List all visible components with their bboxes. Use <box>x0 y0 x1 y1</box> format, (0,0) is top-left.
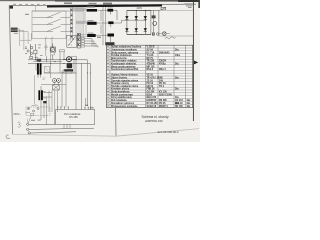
wire mid bus 1 <box>28 59 87 61</box>
relay frame box <box>44 67 49 73</box>
svg-text:H06PP40-150: H06PP40-150 <box>145 119 163 123</box>
breaker pole L1 <box>33 12 71 17</box>
supply terminal box X0 <box>11 28 18 32</box>
svg-text:220V: 220V <box>137 7 143 10</box>
svg-text:230V~: 230V~ <box>14 113 22 116</box>
svg-text:B250: B250 <box>147 94 153 96</box>
border frame left <box>9 5 12 134</box>
svg-text:Transformator ovladaci: Transformator ovladaci <box>111 60 137 63</box>
svg-text:RV 06-150: RV 06-150 <box>147 103 159 105</box>
svg-text:ZS 24: ZS 24 <box>147 79 154 82</box>
svg-text:RSA 4: RSA 4 <box>147 68 154 71</box>
wire rail 3 <box>30 132 76 133</box>
table column lines <box>110 45 186 107</box>
svg-text:Ziarovka signalna zelena: Ziarovka signalna zelena <box>111 80 139 82</box>
svg-text:Pult ovladania: Pult ovladania <box>111 99 127 102</box>
rectifier column 3 <box>144 10 146 34</box>
panel top terminals <box>58 107 93 110</box>
svg-text:SADA 06: SADA 06 <box>147 105 157 108</box>
rectifier block VD1 <box>63 70 72 73</box>
svg-text:MAA 723: MAA 723 <box>147 96 157 99</box>
lamp HL1 <box>67 57 72 62</box>
svg-text:Sch-06-000-00-0: Sch-06-000-00-0 <box>158 130 179 134</box>
diode V3 <box>144 16 147 19</box>
svg-text:Usmernovac mostikovy: Usmernovac mostikovy <box>111 49 138 52</box>
wire drops mid <box>36 52 74 73</box>
diode V4 <box>125 28 128 31</box>
svg-text:V 250 E: V 250 E <box>147 47 156 49</box>
diode cathode bars <box>125 20 147 32</box>
relay stubs down <box>110 12 112 27</box>
corner stamp top-right <box>185 3 193 8</box>
svg-text:HB 04: HB 04 <box>147 85 154 88</box>
relay KA1 <box>108 8 113 9</box>
svg-text:Dioda kremikova: Dioda kremikova <box>111 92 130 94</box>
rectifier column 2 <box>135 10 137 34</box>
terminal cells dark <box>71 9 73 37</box>
wire mid bus 3 <box>33 61 62 63</box>
bridge right side <box>150 10 152 34</box>
panel connect ticks <box>64 124 70 128</box>
diode V6 <box>144 28 147 31</box>
connector strip X2 <box>77 33 80 48</box>
wire to frame right <box>159 35 193 37</box>
svg-text:Mostik usmernovaci: Mostik usmernovaci <box>111 93 133 96</box>
vertical bus wires <box>41 55 66 112</box>
breaker pole L3 <box>33 26 71 31</box>
transformer T2 <box>53 79 57 83</box>
wire bus low <box>44 72 77 74</box>
terminal strip X1 <box>70 8 72 41</box>
control wires vertical <box>76 8 84 41</box>
dc bus top 220V <box>127 9 151 11</box>
relay KA2 <box>108 21 113 24</box>
border frame right <box>192 2 194 122</box>
svg-text:TR 230: TR 230 <box>147 61 155 63</box>
filter box Z1 <box>53 85 60 90</box>
svg-text:Svorkovnica radova RSA: Svorkovnica radova RSA <box>111 68 139 71</box>
fuse group FU2 <box>25 44 38 60</box>
svg-text:GA 204: GA 204 <box>147 91 156 94</box>
resistor R3 <box>60 50 65 52</box>
svg-text:TR 4,7k / 100W: TR 4,7k / 100W <box>147 77 164 80</box>
svg-text:Kondenzator elektrolyt.: Kondenzator elektrolyt. <box>111 63 137 66</box>
svg-text:PO 03: PO 03 <box>159 83 166 85</box>
scan edge top <box>0 0 200 1</box>
wire drops from box QF1 <box>45 37 54 56</box>
row number marks <box>107 46 108 106</box>
transformer T1 primary <box>37 63 39 74</box>
svg-text:KY 714: KY 714 <box>147 51 155 54</box>
handwritten 3 <box>18 122 21 127</box>
wire drops to rails <box>41 72 66 125</box>
wire vertical right A <box>153 11 155 36</box>
svg-text:PO 03: PO 03 <box>147 83 154 85</box>
paper background <box>0 0 200 142</box>
terminal dots <box>85 105 86 106</box>
component labels mid <box>38 45 43 56</box>
diode V5 <box>135 28 138 31</box>
supply wires <box>18 29 32 50</box>
relay KA3 stub <box>110 37 112 42</box>
wire rail 1 <box>29 123 56 125</box>
border frame bottom <box>13 134 116 136</box>
enclosure box QF1 <box>32 11 66 39</box>
svg-text:RSA 4: RSA 4 <box>159 68 166 71</box>
junction dots verticals <box>87 73 88 74</box>
svg-text:H06PP40: H06PP40 <box>147 99 158 102</box>
shunt R1 <box>152 15 156 18</box>
bus junction dots <box>126 10 145 35</box>
svg-text:RS 485: RS 485 <box>159 99 167 102</box>
svg-text:230/24: 230/24 <box>159 60 167 63</box>
junction dots mid <box>35 59 65 64</box>
table row lines <box>106 48 192 104</box>
svg-text:SD 150: SD 150 <box>175 106 183 108</box>
nested bend wires <box>84 39 98 48</box>
svg-text:Rozvadzac vykonovy: Rozvadzac vykonovy <box>111 103 135 105</box>
rectifier column 1 <box>126 10 128 34</box>
wire vertical right B <box>158 11 160 37</box>
svg-text:KY 130: KY 130 <box>159 92 167 94</box>
rectifier block VD2 <box>43 101 46 103</box>
revision strip marks top-left <box>13 4 45 5</box>
svg-text:10ks: 10ks <box>175 55 181 57</box>
svg-text:4700/40: 4700/40 <box>147 63 156 66</box>
fold mark top center <box>103 3 112 5</box>
border frame top <box>9 4 196 5</box>
svg-text:Dioda usmern. vykonova: Dioda usmern. vykonova <box>111 52 139 54</box>
transformer T3 secondary <box>41 90 43 100</box>
control panel outline <box>26 107 50 116</box>
svg-text:Rele pomocne: Rele pomocne <box>111 58 127 60</box>
label mark <box>97 37 101 38</box>
wire rail 2 <box>29 128 94 129</box>
svg-text:Vypinac hlavny skrinovy: Vypinac hlavny skrinovy <box>111 75 138 77</box>
svg-text:Prislusenstvo montazne: Prislusenstvo montazne <box>111 105 138 108</box>
svg-text:B250 C5000: B250 C5000 <box>159 94 173 96</box>
contact box K5 <box>72 56 76 59</box>
svg-text:T 6,3A: T 6,3A <box>147 54 154 57</box>
connector strip X3 <box>81 38 84 48</box>
wire T1 to cluster <box>35 75 38 106</box>
wire drop from border to box <box>35 6 37 11</box>
svg-text:Tlacidlo ovladacie cierne: Tlacidlo ovladacie cierne <box>111 86 139 88</box>
svg-text:OV 214: OV 214 <box>175 99 184 102</box>
handwritten note above table <box>165 37 176 39</box>
T3 taps <box>41 86 52 104</box>
terminal circles bottom <box>27 123 29 125</box>
svg-text:24V: 24V <box>159 79 164 82</box>
svg-text:4700u: 4700u <box>159 63 166 66</box>
relay KA3 <box>108 34 115 37</box>
corner mark top-left <box>10 6 13 9</box>
contactor KM1 <box>87 7 95 8</box>
svg-text:Prepinac otocny: Prepinac otocny <box>111 82 130 85</box>
svg-text:Konektor plochy: Konektor plochy <box>111 88 130 91</box>
svg-text:FRB 24: FRB 24 <box>147 88 156 91</box>
ac taps <box>114 20 147 23</box>
svg-text:H06-40: H06-40 <box>175 102 183 105</box>
wire top bus <box>32 10 84 12</box>
svg-text:RP 70: RP 70 <box>147 58 154 60</box>
svg-text:RV 06: RV 06 <box>159 103 166 105</box>
wire cluster to terminals <box>28 116 31 123</box>
contactor KM2 <box>87 20 93 21</box>
relay KA4 <box>67 63 73 68</box>
wire fan to contactors <box>73 8 87 36</box>
fuse FU1 <box>161 7 166 10</box>
panel switches <box>28 108 30 110</box>
svg-text:Stykac vzduchovy 3-polovy: Stykac vzduchovy 3-polovy <box>111 46 142 49</box>
capacitor C2 <box>153 32 155 35</box>
ammeter P2 <box>153 22 157 26</box>
selector switch box SA1 <box>67 35 77 47</box>
svg-text:RS 485: RS 485 <box>69 116 78 119</box>
table text rows <box>111 46 191 108</box>
choke L1 dark <box>37 59 42 62</box>
registration mark bottom-left <box>6 135 10 139</box>
switch S2 <box>44 44 48 50</box>
winding bar W1 <box>64 69 73 71</box>
scan edge right <box>198 0 200 8</box>
svg-text:Poistka trubickova: Poistka trubickova <box>111 54 132 57</box>
wire mid bus 2 <box>28 62 90 64</box>
svg-text:MP 120: MP 120 <box>147 66 156 68</box>
title block separator <box>115 108 117 136</box>
diode V1 <box>125 16 128 19</box>
wire to right section <box>151 9 161 11</box>
dc bus bottom <box>127 33 151 35</box>
rail labels <box>31 120 35 121</box>
svg-text:Zdroj stabilizovany: Zdroj stabilizovany <box>111 96 133 99</box>
breaker pole L2 <box>33 19 71 24</box>
svg-text:2NN 6045: 2NN 6045 <box>159 51 170 54</box>
transformer T1 secondary <box>40 63 42 74</box>
transformer T3 primary <box>38 90 40 100</box>
wire links between relay columns <box>96 7 109 45</box>
svg-text:VS 16: VS 16 <box>147 75 154 77</box>
contactor KM3 <box>88 32 94 35</box>
svg-text:MONT 4: MONT 4 <box>159 105 168 108</box>
svg-text:Merac prudu panelovy: Merac prudu panelovy <box>111 66 136 68</box>
svg-text:TO 2: TO 2 <box>159 86 165 88</box>
svg-text:SV 04: SV 04 <box>147 49 154 52</box>
lamp HL2 <box>163 32 167 36</box>
long verticals to bottom <box>76 60 90 110</box>
control panel box <box>56 110 95 125</box>
voltmeter P1 <box>50 47 55 52</box>
svg-text:Odpor drotovy: Odpor drotovy <box>111 77 128 80</box>
diode V2 <box>135 16 138 19</box>
parts list table <box>106 45 192 107</box>
pointer arrow right edge <box>194 61 198 65</box>
